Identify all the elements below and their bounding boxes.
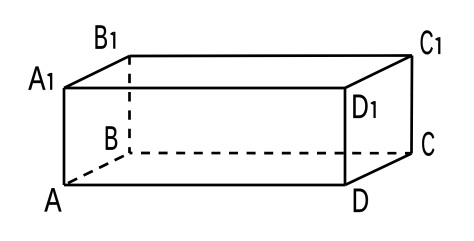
vertex label C1 letter C [421, 30, 433, 54]
vertex label C [422, 132, 434, 156]
vertex label B1 subscript 1 [110, 32, 115, 49]
edge C1-C right back vertical [410, 56, 413, 154]
vertex label D [354, 189, 368, 212]
dashed hidden edge A-B [64, 153, 130, 185]
edge D-D1 right front vertical [344, 88, 347, 185]
edge D-C bottom right depth [345, 154, 412, 186]
edge A1-B1 top left depth [64, 56, 130, 88]
edge A-A1 left front vertical [63, 88, 66, 185]
vertex label A [44, 188, 61, 211]
vertex label A1 subscript 1 [47, 73, 52, 90]
vertex label C1 subscript 1 [435, 37, 440, 54]
edge B1-C1 top back [130, 54, 413, 57]
edge A-D bottom front [64, 184, 345, 187]
dashed hidden edge B-B1 [128, 56, 131, 153]
vertex label A1 letter A [28, 66, 45, 89]
edge D1-C1 top right depth [345, 56, 412, 89]
vertex label B1 letter B [95, 25, 106, 48]
dashed hidden edge B-C [130, 152, 412, 155]
vertex label B [106, 126, 117, 149]
vertex label D1 subscript 1 [371, 101, 376, 118]
edge A1-D1 top front [64, 87, 345, 90]
vertex label D1 letter D [353, 95, 367, 118]
